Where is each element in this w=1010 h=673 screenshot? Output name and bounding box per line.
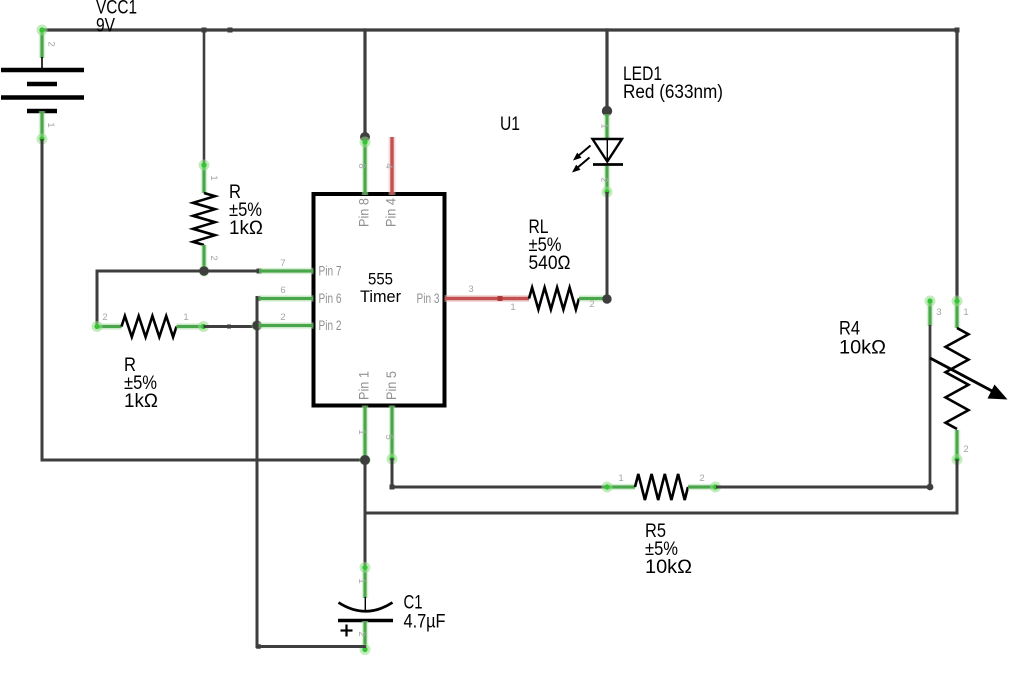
svg-text:Pin 1: Pin 1 (357, 371, 372, 400)
pin number 2 (R2) (102, 312, 107, 323)
pin number 2 (R5) (699, 473, 704, 484)
resistor R5 pin 1 leg (green) (602, 482, 636, 493)
svg-text:Red (633nm): Red (633nm) (623, 82, 723, 103)
pin number 1 (R top) (208, 175, 219, 180)
resistor RL pin 2 leg (green) (579, 295, 607, 302)
wire: pin7 net horizontal (97, 270, 259, 273)
IC pin label Pin 4 (384, 198, 399, 227)
wire: vertical pin6-to-bottom net (256, 297, 259, 648)
wire: R5 to R4 wiper (716, 486, 930, 489)
battery VCC1 plate short 2 (27, 109, 57, 114)
node: rail bendpoint nub A (202, 28, 207, 33)
node: rail bendpoint nub B (228, 28, 233, 33)
svg-text:1kΩ: 1kΩ (229, 218, 263, 239)
resistor R pin 1 leg (green) (199, 160, 210, 194)
wire: left drop to resistor R2 (96, 270, 99, 327)
node: junction dot LED anode net (602, 106, 612, 116)
svg-text:R4: R4 (839, 319, 860, 340)
svg-text:2: 2 (208, 255, 219, 260)
svg-text:4: 4 (383, 163, 394, 168)
pin number 1 (555) (356, 429, 367, 434)
pin number 1 (RL left) (510, 302, 515, 313)
svg-text:Timer: Timer (360, 288, 401, 306)
svg-text:2: 2 (280, 312, 285, 323)
pin number 1 (C1) (356, 578, 367, 583)
pin number 2 (C1) (356, 631, 367, 636)
IC pin label Pin 5 (384, 371, 399, 400)
svg-text:555: 555 (368, 271, 393, 289)
svg-text:3: 3 (936, 307, 941, 318)
node: pin7 wire nub (257, 269, 262, 274)
resistor R2 pin 2 leg (green) (92, 321, 122, 332)
wire: ground horizontal R4 to C1 net (365, 512, 957, 515)
svg-text:4.7µF: 4.7µF (404, 612, 446, 633)
pin number 1 (R4) (963, 307, 968, 318)
label R ±5% 1kΩ (top) (229, 182, 263, 239)
wire: bottom horizontal to ground node (41, 459, 366, 462)
pin number 1 (R5) (618, 473, 623, 484)
node: small junction dot R5/wiper (927, 484, 934, 491)
wire: pin 3 leg (red) (445, 296, 530, 301)
resistor R zigzag body (193, 193, 215, 245)
IC pin label Pin 6 (319, 291, 342, 306)
pin number 6 (280, 285, 285, 296)
pin number 7 (280, 258, 285, 269)
potentiometer R4 pin 2 leg (green) (952, 430, 963, 465)
label C1 4.7µF (404, 593, 446, 633)
label U1 (500, 114, 520, 135)
svg-text:1: 1 (356, 578, 367, 583)
wire: pin 7 leg (green) (259, 268, 314, 275)
svg-text:8: 8 (356, 163, 367, 168)
IC pin label Pin 2 (319, 318, 342, 333)
battery VCC1 plate short 1 (27, 82, 57, 87)
wire: rail drop to pin 8 node (363, 28, 366, 137)
svg-text:Pin 8: Pin 8 (357, 198, 372, 227)
capacitor C1 plus sign (341, 625, 353, 637)
svg-text:Pin 2: Pin 2 (319, 318, 342, 333)
potentiometer R4 zigzag body (946, 328, 969, 429)
node: junction dot ground (pin1/battery/C1) (360, 455, 371, 466)
svg-text:1: 1 (356, 429, 367, 434)
label R4 10kΩ (839, 319, 886, 359)
pin number 2 (RL) (589, 299, 594, 310)
node: junction dot pin8 net (360, 132, 370, 142)
label 555 Timer (360, 271, 401, 307)
battery VCC1 top lead (41, 57, 43, 70)
svg-text:7: 7 (280, 258, 285, 269)
svg-text:2: 2 (46, 41, 57, 46)
pin number 1 (LED) (599, 123, 610, 128)
op-amp/IC U1 555 timer body (314, 194, 445, 406)
svg-text:3: 3 (468, 284, 473, 295)
wire: R2 to pin2/pin6 node (204, 325, 258, 329)
LED1 triangle (593, 139, 623, 162)
pin number 4 (383, 163, 394, 168)
node: junction dot at R bottom / pin 7 net (199, 266, 210, 277)
potentiometer R4 wiper arrow (930, 358, 1008, 400)
pin number 2 (LED) (599, 177, 610, 182)
LED1 pin 2 cathode leg (green) (602, 166, 613, 198)
svg-text:Pin 4: Pin 4 (384, 198, 399, 227)
wire: R4 pin2 down (956, 459, 959, 515)
wire: pin 4 leg (red) (389, 137, 396, 195)
svg-text:2: 2 (102, 312, 107, 323)
node: pin5 bend nub (390, 485, 395, 490)
wire: pin 5 leg (green) (387, 406, 398, 465)
svg-text:2: 2 (589, 299, 594, 310)
pin number 3 (555 output) (468, 284, 473, 295)
wire: pin 8 leg (green) (360, 137, 371, 196)
wire: LED cathode down to RL node (606, 192, 609, 300)
svg-text:1: 1 (45, 122, 56, 127)
label VCC1 9V (96, 0, 137, 37)
resistor R5 pin 2 leg (green) (688, 482, 721, 493)
pin number 2 (battery) (46, 41, 57, 46)
pin number 3 (R4 wiper) (936, 307, 941, 318)
label RL ±5% 540Ω (529, 217, 571, 274)
label LED1 Red (633nm) (623, 64, 723, 103)
svg-text:10kΩ: 10kΩ (839, 338, 886, 359)
wire: pin 5 drop (391, 458, 394, 488)
LED1 emission arrow 1 (573, 146, 591, 161)
svg-text:Pin 5: Pin 5 (384, 371, 399, 400)
wire: right vertical rail down to R4 pin 1 (955, 28, 958, 301)
LED1 emission arrow 2 (572, 158, 590, 173)
pin number 1 (battery) (45, 122, 56, 127)
capacitor C1 straight plate (338, 619, 393, 623)
wire: battery negative down left side (41, 139, 44, 462)
capacitor C1 top lead (364, 597, 366, 610)
svg-text:1: 1 (618, 473, 623, 484)
wire: rail drop to LED anode (605, 28, 608, 111)
svg-text:C1: C1 (404, 593, 423, 614)
svg-text:2: 2 (356, 631, 367, 636)
svg-text:540Ω: 540Ω (529, 253, 571, 274)
wire: pin 2 leg (green) (257, 322, 314, 329)
wire: rail to resistor R top (203, 30, 206, 164)
wire: ground node down to C1 (364, 460, 367, 567)
svg-text:2: 2 (963, 444, 968, 455)
IC pin label Pin 7 (319, 264, 342, 279)
node: junction dot RL/LED (602, 294, 611, 303)
node: rail top-right corner (955, 28, 960, 33)
svg-text:1: 1 (510, 302, 515, 313)
capacitor C1 pin 2 leg (green) (360, 621, 371, 655)
IC pin label Pin 8 (357, 198, 372, 227)
svg-text:2: 2 (699, 473, 704, 484)
resistor R2 pin 1 leg (green) (177, 321, 210, 332)
capacitor C1 curved plate (339, 603, 393, 612)
battery VCC1 pin 2 leg (green) (37, 25, 48, 59)
svg-text:1kΩ: 1kΩ (124, 391, 158, 412)
label R ±5% 1kΩ (left) (124, 355, 158, 412)
resistor R pin 2 leg (green) (201, 245, 208, 271)
resistor R5 zigzag body (635, 474, 688, 500)
resistor RL zigzag body (529, 288, 579, 310)
battery VCC1 plate long bottom (1, 95, 84, 100)
pin number 2 (R top) (208, 255, 219, 260)
LED1 cathode bar (593, 163, 623, 166)
capacitor C1 pin 1 leg (green) (360, 562, 371, 598)
svg-text:1: 1 (183, 312, 188, 323)
wire: pin 1 leg (green) (362, 406, 369, 461)
svg-text:Pin 6: Pin 6 (319, 291, 342, 306)
svg-text:Pin 3: Pin 3 (417, 291, 440, 306)
svg-text:10kΩ: 10kΩ (645, 557, 692, 578)
potentiometer R4 pin 3 wiper leg (green) (925, 296, 936, 327)
wire: top VCC power rail (42, 28, 957, 31)
LED1 pin 1 anode leg (green) (604, 114, 611, 138)
pin number 1 (R2) (183, 312, 188, 323)
svg-text:1: 1 (208, 175, 219, 180)
svg-text:9V: 9V (96, 16, 115, 37)
resistor R2 zigzag body (122, 316, 177, 337)
wire: pin 5 to R5 (392, 486, 606, 489)
label R5 ±5% 10kΩ (645, 521, 692, 578)
pin number 2 (R4) (963, 444, 968, 455)
node: pin6 wire nub (256, 296, 261, 301)
battery VCC1 plate long top (1, 68, 84, 73)
svg-text:U1: U1 (500, 114, 520, 135)
IC pin label Pin 3 (417, 291, 440, 306)
potentiometer R4 pin 1 leg (green) (952, 296, 963, 329)
node: junction dot pin2/pin6 net (252, 320, 263, 331)
svg-text:6: 6 (280, 285, 285, 296)
pin number 5 (383, 434, 394, 439)
wire: R4 wiper vertical (929, 325, 932, 487)
wire: pin 6 leg (green) (258, 295, 314, 302)
svg-text:1: 1 (963, 307, 968, 318)
pin number 2 (555) (280, 312, 285, 323)
IC pin label Pin 1 (357, 371, 372, 400)
svg-text:5: 5 (383, 434, 394, 439)
wire: bottom-left return corner (256, 644, 366, 649)
svg-text:2: 2 (599, 177, 610, 182)
pin number 8 (356, 163, 367, 168)
svg-text:1: 1 (599, 123, 610, 128)
battery VCC1 pin 1 leg (green) (37, 111, 48, 145)
svg-text:Pin 7: Pin 7 (319, 264, 342, 279)
